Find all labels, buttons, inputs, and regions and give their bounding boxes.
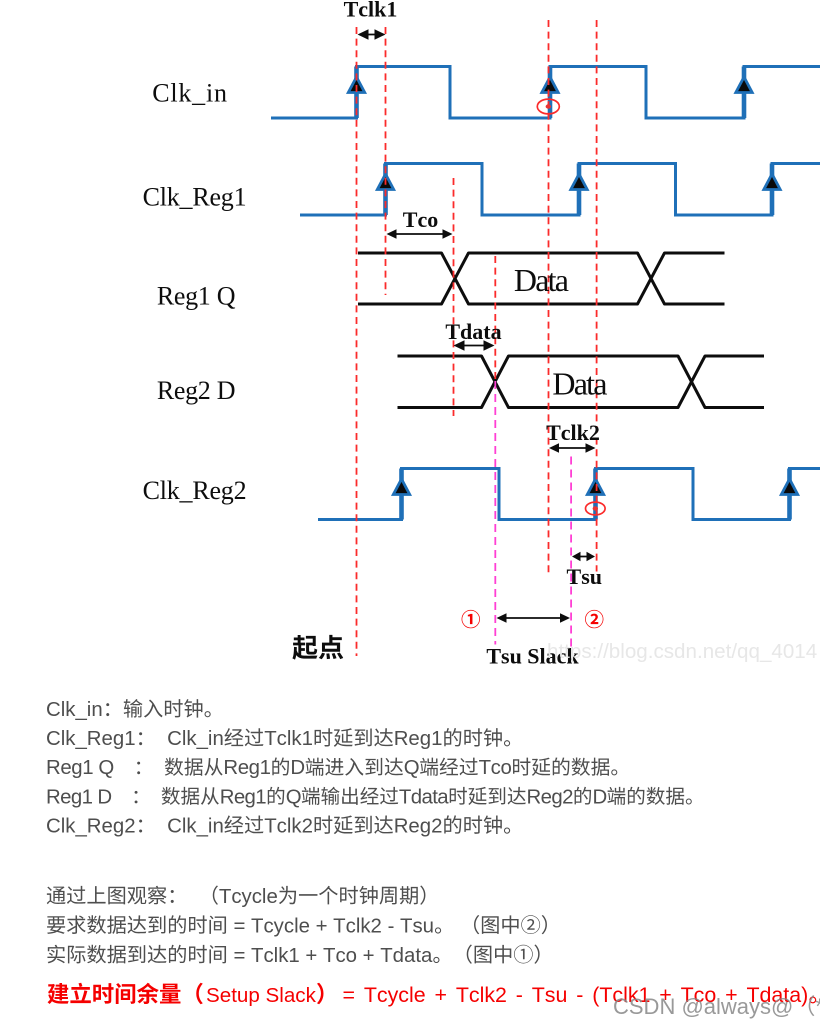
svg-text:Reg2: Reg2 [394,815,443,837]
svg-text:Q: Q [286,786,301,808]
svg-text:Tclk1: Tclk1 [344,0,398,22]
svg-text:Data: Data [552,366,607,402]
svg-text:Clk_Reg2: Clk_Reg2 [46,815,136,837]
svg-text:Reg1: Reg1 [223,757,270,779]
svg-text:Q: Q [404,757,419,779]
svg-text:Reg2 D: Reg2 D [157,376,235,405]
svg-text:Tclk2: Tclk2 [264,815,313,837]
svg-text:= Tclk1 + Tco + Tdata: = Tclk1 + Tco + Tdata [228,945,433,967]
svg-text:Tclk2: Tclk2 [546,420,600,445]
svg-text:CSDN @always@: CSDN @always@ [613,994,793,1019]
svg-text:Tclk1: Tclk1 [264,728,313,750]
svg-text:Reg1 Q: Reg1 Q [46,757,114,779]
svg-text:Tcycle: Tcycle [219,886,278,908]
svg-text:*: * [815,994,820,1019]
svg-text:Tco: Tco [403,207,438,232]
svg-text:Tsu: Tsu [567,564,602,589]
svg-text:Clk_in: Clk_in [152,79,228,108]
svg-text:Clk_Reg1: Clk_Reg1 [143,183,247,212]
svg-text:https://blog.csdn.net/qq_4014: https://blog.csdn.net/qq_4014 [547,640,817,663]
svg-text:D: D [290,757,304,779]
svg-text:Clk_Reg2: Clk_Reg2 [143,476,247,505]
svg-text:Tco: Tco [479,757,512,779]
svg-text:Reg1: Reg1 [394,728,443,750]
svg-text:= Tcycle + Tclk2 - Tsu: = Tcycle + Tclk2 - Tsu [228,915,434,937]
svg-text:Reg1: Reg1 [220,786,267,808]
svg-text:Tdata: Tdata [399,786,449,808]
svg-text:Reg1 Q: Reg1 Q [157,282,236,311]
svg-text:Reg1 D: Reg1 D [46,786,112,808]
svg-text:Setup Slack: Setup Slack [206,984,317,1007]
svg-text:Reg2: Reg2 [527,786,574,808]
svg-text:Clk_in: Clk_in [156,815,224,837]
svg-text:Data: Data [514,262,569,298]
svg-text:Clk_Reg1: Clk_Reg1 [46,728,136,750]
svg-text:Tdata: Tdata [445,319,501,344]
svg-text:D: D [593,786,607,808]
svg-text:Clk_in: Clk_in [156,728,224,750]
svg-text:Clk_in: Clk_in [46,699,103,721]
